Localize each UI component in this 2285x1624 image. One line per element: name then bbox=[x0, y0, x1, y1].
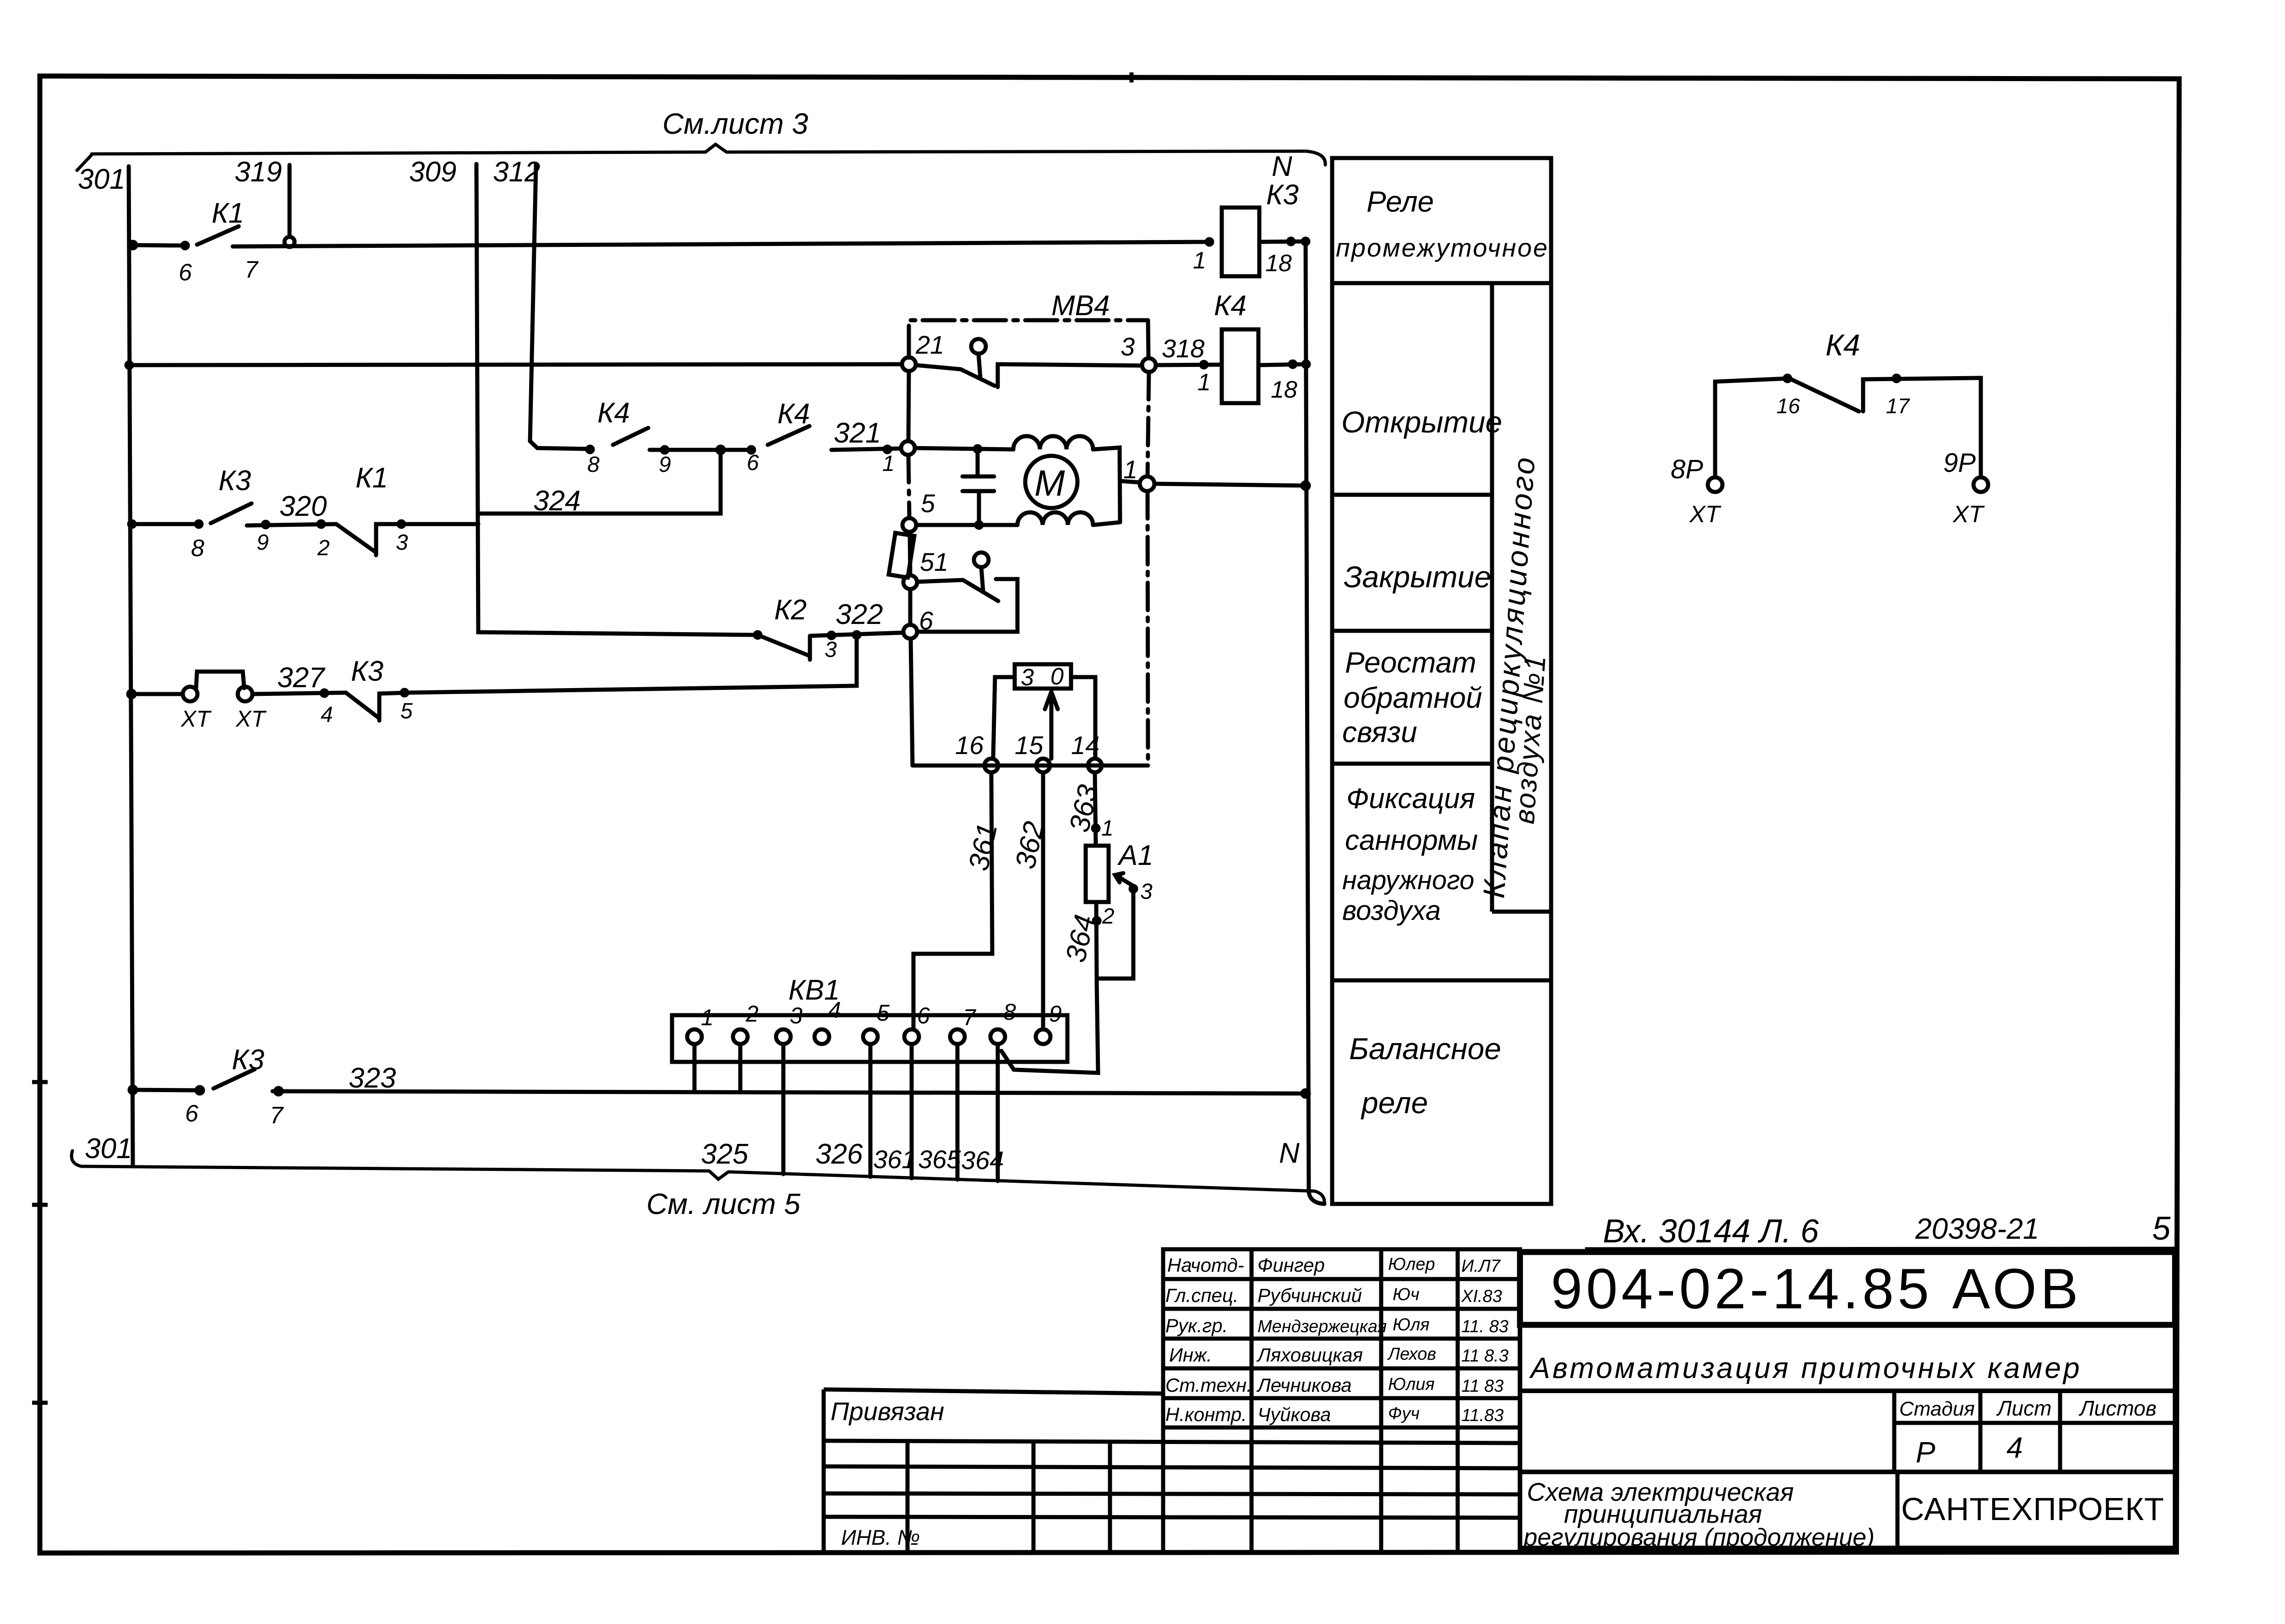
svg-text:N: N bbox=[1279, 1137, 1300, 1169]
svg-text:Лист: Лист bbox=[1996, 1396, 2051, 1420]
svg-text:XI.83: XI.83 bbox=[1461, 1287, 1502, 1306]
svg-text:2: 2 bbox=[1102, 904, 1115, 929]
svg-text:11.83: 11.83 bbox=[1461, 1406, 1503, 1425]
svg-text:Открытие: Открытие bbox=[1341, 405, 1502, 439]
svg-text:1: 1 bbox=[701, 1005, 714, 1030]
svg-text:Ляховицкая: Ляховицкая bbox=[1256, 1344, 1363, 1366]
svg-text:Юля: Юля bbox=[1393, 1315, 1430, 1334]
svg-text:6: 6 bbox=[917, 1003, 930, 1028]
svg-text:11 83: 11 83 bbox=[1461, 1377, 1503, 1396]
svg-text:327: 327 bbox=[277, 662, 326, 694]
svg-text:319: 319 bbox=[235, 156, 282, 188]
svg-text:Автоматизация приточных каме: Автоматизация приточных камер bbox=[1529, 1351, 2082, 1384]
svg-text:промежуточное: промежуточное bbox=[1336, 233, 1549, 262]
svg-text:Ст.техн.: Ст.техн. bbox=[1165, 1374, 1252, 1396]
svg-text:Балансное: Балансное bbox=[1349, 1032, 1501, 1066]
svg-text:Чуйкова: Чуйкова bbox=[1257, 1404, 1331, 1425]
svg-text:3: 3 bbox=[1121, 332, 1135, 361]
svg-text:К3: К3 bbox=[1266, 179, 1299, 211]
svg-text:Р: Р bbox=[1916, 1436, 1935, 1469]
svg-text:321: 321 bbox=[834, 417, 881, 449]
svg-text:6: 6 bbox=[179, 259, 192, 286]
svg-text:5: 5 bbox=[400, 699, 413, 723]
svg-text:361: 361 bbox=[963, 820, 1004, 874]
svg-text:К4: К4 bbox=[777, 398, 810, 430]
svg-text:9: 9 bbox=[1049, 1001, 1062, 1027]
svg-text:связи: связи bbox=[1342, 716, 1417, 749]
svg-text:М: М bbox=[1034, 463, 1065, 503]
svg-text:воздуха: воздуха bbox=[1342, 895, 1441, 926]
svg-text:0: 0 bbox=[1050, 663, 1064, 690]
svg-text:5: 5 bbox=[2152, 1210, 2171, 1247]
svg-text:16: 16 bbox=[955, 731, 984, 760]
svg-text:ИНВ. №: ИНВ. № bbox=[841, 1526, 920, 1549]
svg-text:К3: К3 bbox=[351, 656, 383, 687]
svg-text:См. лист 5: См. лист 5 bbox=[646, 1187, 800, 1220]
svg-text:4: 4 bbox=[2006, 1431, 2023, 1464]
svg-text:323: 323 bbox=[349, 1062, 396, 1094]
svg-text:САНТЕХПРОЕКТ: САНТЕХПРОЕКТ bbox=[1901, 1491, 2165, 1527]
svg-text:301: 301 bbox=[85, 1133, 132, 1165]
svg-text:Лечникова: Лечникова bbox=[1256, 1374, 1352, 1396]
svg-text:5: 5 bbox=[877, 1000, 890, 1026]
svg-text:Юлия: Юлия bbox=[1388, 1375, 1435, 1394]
svg-text:318: 318 bbox=[1162, 334, 1204, 363]
svg-text:См.лист 3: См.лист 3 bbox=[662, 107, 809, 140]
svg-text:К4: К4 bbox=[597, 397, 630, 429]
svg-text:Фингер: Фингер bbox=[1257, 1254, 1325, 1276]
svg-text:1: 1 bbox=[1101, 816, 1114, 841]
svg-text:8: 8 bbox=[191, 535, 204, 562]
svg-text:саннормы: саннормы bbox=[1345, 825, 1478, 856]
svg-text:8: 8 bbox=[1003, 999, 1016, 1025]
svg-text:К4: К4 bbox=[1214, 290, 1246, 322]
svg-text:Фиксация: Фиксация bbox=[1346, 783, 1475, 815]
svg-text:ХТ: ХТ bbox=[180, 706, 212, 732]
svg-text:1: 1 bbox=[882, 452, 895, 476]
svg-text:17: 17 bbox=[1886, 394, 1910, 418]
svg-text:9Р: 9Р bbox=[1943, 448, 1976, 478]
svg-text:Реле: Реле bbox=[1367, 185, 1434, 218]
svg-text:11 8.3: 11 8.3 bbox=[1461, 1346, 1509, 1366]
svg-text:364: 364 bbox=[961, 1146, 1004, 1175]
svg-text:Н.контр.: Н.контр. bbox=[1165, 1404, 1247, 1425]
svg-text:Листов: Листов bbox=[2078, 1396, 2157, 1420]
svg-text:7: 7 bbox=[963, 1005, 977, 1030]
svg-text:Начотд-: Начотд- bbox=[1167, 1254, 1244, 1276]
svg-text:обратной: обратной bbox=[1344, 681, 1482, 714]
svg-text:N: N bbox=[1272, 151, 1292, 182]
svg-text:1: 1 bbox=[1193, 247, 1206, 274]
svg-text:51: 51 bbox=[920, 547, 948, 576]
svg-text:К3: К3 bbox=[219, 465, 251, 497]
svg-text:Привязан: Привязан bbox=[831, 1397, 944, 1426]
svg-text:904-02-14.85 АОВ: 904-02-14.85 АОВ bbox=[1551, 1258, 2082, 1321]
svg-text:Гл.спец.: Гл.спец. bbox=[1165, 1285, 1239, 1306]
svg-text:21: 21 bbox=[915, 330, 944, 359]
svg-text:3: 3 bbox=[825, 638, 837, 662]
svg-text:К4: К4 bbox=[1826, 328, 1860, 362]
svg-text:Вх. 30144 Л. 6: Вх. 30144 Л. 6 bbox=[1603, 1213, 1819, 1250]
svg-text:312: 312 bbox=[493, 156, 540, 188]
svg-text:326: 326 bbox=[815, 1138, 863, 1170]
svg-text:Фуч: Фуч bbox=[1388, 1404, 1420, 1423]
svg-text:4: 4 bbox=[321, 703, 333, 727]
svg-text:реле: реле bbox=[1361, 1086, 1428, 1120]
svg-text:320: 320 bbox=[279, 491, 327, 522]
svg-text:ХТ: ХТ bbox=[1952, 501, 1985, 528]
svg-text:К1: К1 bbox=[355, 462, 388, 494]
svg-text:Инж.: Инж. bbox=[1169, 1344, 1212, 1366]
svg-text:3: 3 bbox=[790, 1003, 803, 1028]
svg-text:5: 5 bbox=[921, 489, 935, 518]
svg-text:Юч: Юч bbox=[1393, 1285, 1420, 1304]
svg-text:Юлер: Юлер bbox=[1388, 1255, 1435, 1274]
svg-text:3: 3 bbox=[1140, 880, 1153, 904]
svg-text:Стадия: Стадия bbox=[1899, 1398, 1975, 1420]
svg-text:ХТ: ХТ bbox=[235, 706, 267, 732]
svg-text:Рубчинский: Рубчинский bbox=[1257, 1285, 1362, 1306]
svg-text:А1: А1 bbox=[1117, 840, 1153, 871]
svg-text:3: 3 bbox=[396, 530, 408, 555]
svg-text:18: 18 bbox=[1265, 250, 1292, 277]
svg-text:Реостат: Реостат bbox=[1345, 646, 1476, 679]
svg-text:14: 14 bbox=[1071, 731, 1099, 760]
svg-text:3: 3 bbox=[1021, 664, 1034, 691]
svg-text:322: 322 bbox=[836, 599, 883, 630]
svg-text:7: 7 bbox=[245, 257, 259, 283]
svg-text:Лехов: Лехов bbox=[1387, 1345, 1436, 1364]
svg-text:325: 325 bbox=[701, 1138, 749, 1170]
svg-text:2: 2 bbox=[745, 1001, 759, 1027]
svg-text:8Р: 8Р bbox=[1671, 454, 1703, 484]
svg-text:15: 15 bbox=[1015, 731, 1044, 760]
svg-text:МВ4: МВ4 bbox=[1051, 290, 1110, 322]
svg-text:9: 9 bbox=[257, 530, 269, 555]
svg-text:324: 324 bbox=[533, 485, 580, 517]
svg-text:8: 8 bbox=[587, 453, 600, 477]
svg-text:301: 301 bbox=[78, 164, 125, 195]
svg-text:К3: К3 bbox=[232, 1044, 264, 1076]
svg-text:Закрытие: Закрытие bbox=[1344, 560, 1491, 594]
svg-text:Мендзержецкая: Мендзержецкая bbox=[1257, 1317, 1387, 1336]
svg-text:20398-21: 20398-21 bbox=[1915, 1212, 2039, 1245]
svg-text:16: 16 bbox=[1777, 394, 1800, 418]
svg-text:6: 6 bbox=[185, 1100, 198, 1127]
svg-text:6: 6 bbox=[747, 451, 759, 475]
svg-text:Рук.гр.: Рук.гр. bbox=[1165, 1315, 1228, 1336]
svg-text:наружного: наружного bbox=[1342, 865, 1474, 895]
svg-text:11. 83: 11. 83 bbox=[1461, 1317, 1509, 1336]
svg-text:7: 7 bbox=[270, 1102, 284, 1129]
svg-text:365: 365 bbox=[918, 1145, 961, 1174]
svg-text:И.Л7: И.Л7 bbox=[1461, 1257, 1501, 1276]
svg-text:6: 6 bbox=[919, 606, 934, 635]
svg-text:361: 361 bbox=[873, 1145, 916, 1174]
svg-text:9: 9 bbox=[659, 453, 671, 477]
svg-text:регулирования (продолжение): регулирования (продолжение) bbox=[1523, 1524, 1875, 1551]
svg-text:К2: К2 bbox=[774, 594, 807, 626]
svg-text:2: 2 bbox=[317, 536, 330, 560]
svg-text:1: 1 bbox=[1123, 455, 1137, 484]
svg-text:18: 18 bbox=[1271, 377, 1297, 403]
svg-text:309: 309 bbox=[409, 156, 456, 188]
svg-text:1: 1 bbox=[1197, 369, 1211, 396]
svg-text:4: 4 bbox=[828, 997, 841, 1023]
svg-text:К1: К1 bbox=[212, 197, 244, 229]
svg-text:ХТ: ХТ bbox=[1689, 501, 1722, 528]
